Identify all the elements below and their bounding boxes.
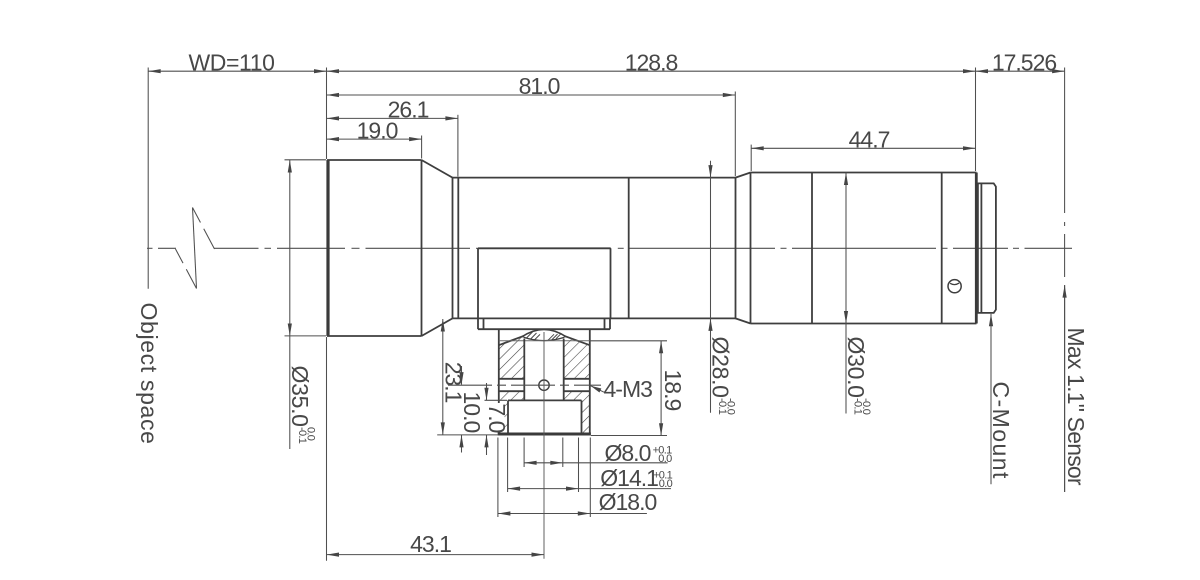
svg-text:Ø35.0: Ø35.0 bbox=[287, 366, 313, 427]
dim D18 line bbox=[498, 513, 647, 515]
foot right edge bbox=[589, 330, 591, 434]
spherical washer upper arc bbox=[522, 329, 567, 337]
rear taper top edge bbox=[736, 173, 751, 178]
dim 18.9 extensions bbox=[590, 340, 667, 342]
rear barrel bottom edge bbox=[751, 323, 977, 325]
svg-text:Max 1.1" Sensor: Max 1.1" Sensor bbox=[1063, 328, 1089, 486]
C-mount thread cylinder bbox=[978, 183, 996, 313]
svg-text:44.7: 44.7 bbox=[849, 126, 890, 152]
front face extension line upper bbox=[326, 68, 328, 160]
clamp block right edge bbox=[610, 248, 612, 318]
svg-text:Ø14.1: Ø14.1 bbox=[600, 465, 658, 491]
dim D14.1 line bbox=[508, 488, 671, 490]
mid barrel right step line bbox=[735, 178, 737, 319]
foot vertical axis bbox=[543, 332, 545, 559]
foot shoulder line bbox=[499, 340, 590, 342]
M3 hole axis (dash-dot) bbox=[448, 384, 601, 386]
foot hatch right lower bbox=[564, 391, 590, 433]
dim 17.526 arrows bbox=[976, 69, 989, 73]
rear barrel groove line 2 bbox=[941, 173, 943, 324]
foot bottom face (thick) bbox=[498, 433, 591, 436]
svg-text:10.0: 10.0 bbox=[459, 392, 485, 433]
C-mount cylinder inner line bbox=[980, 183, 982, 313]
counterbore shoulder extension bbox=[485, 399, 508, 401]
dim 81.0 extension bbox=[734, 92, 736, 177]
rear barrel left edge bbox=[750, 173, 752, 324]
counterbore shoulder bbox=[508, 399, 582, 401]
svg-text:C-Mount: C-Mount bbox=[988, 382, 1014, 480]
counterbore right wall bbox=[581, 400, 583, 432]
4-M3 leader bbox=[591, 386, 605, 393]
dim 17.526 line bbox=[976, 70, 1065, 72]
front face extension line lower bbox=[326, 337, 328, 561]
saddle boundary right bbox=[564, 336, 590, 345]
svg-text:-0.1: -0.1 bbox=[852, 398, 864, 415]
white mask for 7.0 bbox=[487, 403, 505, 432]
svg-text:-0.1: -0.1 bbox=[716, 398, 728, 415]
svg-text:128.8: 128.8 bbox=[625, 49, 678, 75]
object plane break (zigzag) symbol bbox=[176, 208, 215, 289]
counterbore left wall bbox=[507, 400, 509, 432]
rear taper bottom edge bbox=[736, 318, 751, 323]
M3 hole silhouette lines bbox=[499, 379, 590, 391]
groove ring lines after taper bbox=[452, 178, 454, 319]
svg-text:-0.1: -0.1 bbox=[296, 427, 308, 444]
dim D14.1 arrows bbox=[508, 487, 520, 491]
dim D8 extensions bbox=[523, 438, 525, 468]
svg-text:Ø18.0: Ø18.0 bbox=[599, 489, 657, 515]
dim 7.0 lines (outside arrows) bbox=[486, 383, 488, 400]
dim 26.1 extension bbox=[457, 115, 459, 177]
svg-text:17.526: 17.526 bbox=[992, 49, 1057, 75]
dim D18 arrows bbox=[498, 511, 511, 515]
C-Mount leader bbox=[990, 314, 992, 485]
clamp block left edge bbox=[477, 248, 479, 318]
dim 44.7 line bbox=[751, 147, 975, 149]
svg-text:18.9: 18.9 bbox=[660, 370, 686, 411]
foot bottom extension left bbox=[437, 434, 498, 436]
rear end extension line bbox=[975, 68, 977, 172]
dim 44.7 extension bbox=[750, 145, 752, 171]
dim 128.8 line bbox=[327, 70, 976, 72]
dim D28 line bbox=[710, 161, 712, 413]
object plane extension line bbox=[147, 68, 149, 289]
saddle boundary left bbox=[499, 336, 524, 345]
label D35 bbox=[287, 366, 316, 444]
foot hatch left upper bbox=[499, 336, 525, 379]
dim 18.9 arrows bbox=[659, 341, 663, 354]
rear barrel end face (thick) bbox=[975, 173, 978, 324]
svg-text:43.1: 43.1 bbox=[410, 531, 451, 557]
dim 23.1 line bbox=[442, 319, 444, 435]
spherical washer lower arc bbox=[524, 337, 565, 340]
mid barrel top edge bbox=[453, 177, 736, 179]
dim D14.1 extensions bbox=[507, 438, 509, 493]
dim D30 line bbox=[845, 173, 847, 414]
dim 19.0 line bbox=[327, 138, 422, 140]
dim WD=110 line bbox=[148, 70, 326, 72]
clamp flange right edge bbox=[609, 319, 611, 330]
front barrel face (thick) bbox=[326, 160, 329, 336]
dim 26.1 line bbox=[327, 117, 458, 119]
clamp flange notch right bbox=[604, 319, 606, 329]
svg-text:7.0: 7.0 bbox=[484, 404, 510, 433]
svg-text:Object space: Object space bbox=[136, 303, 162, 445]
svg-text:0.0: 0.0 bbox=[659, 478, 673, 490]
sensor plane line bbox=[1064, 68, 1066, 493]
main optical centerline (dash-dot) bbox=[147, 247, 1072, 249]
dim 18.9 line bbox=[660, 341, 662, 436]
center hole right wall bbox=[563, 339, 565, 401]
dim WD=110 arrows bbox=[148, 69, 161, 73]
svg-text:4-M3: 4-M3 bbox=[604, 376, 653, 402]
dim D8 arrows bbox=[524, 461, 537, 465]
dim 10.0 lines (outside arrows) bbox=[461, 366, 463, 385]
Max sensor leader bbox=[1064, 285, 1066, 492]
dim D35 line bbox=[289, 160, 291, 449]
dim D35 edge extensions bbox=[285, 159, 327, 161]
foot left edge bbox=[498, 330, 500, 434]
mid barrel groove line bbox=[628, 178, 630, 319]
dim 81.0 arrows bbox=[327, 93, 340, 97]
dim D35 arrows bbox=[288, 160, 292, 173]
dim 23.1 arrows bbox=[441, 319, 445, 332]
clamp flange bottom edge bbox=[478, 328, 610, 330]
front barrel bottom edge (thick) bbox=[327, 335, 422, 337]
set screw hole on rear barrel bbox=[948, 280, 961, 293]
dim D8 line bbox=[524, 462, 668, 464]
dim D28 arrows (outside) bbox=[708, 165, 712, 178]
dim D30 arrows bbox=[844, 173, 848, 186]
dim 128.8 arrows bbox=[327, 69, 340, 73]
taper bottom edge bbox=[422, 318, 453, 336]
label D30 bbox=[843, 337, 872, 415]
mid barrel bottom edge bbox=[453, 317, 736, 319]
svg-text:WD=110: WD=110 bbox=[188, 49, 274, 75]
taper top edge bbox=[422, 160, 453, 178]
dim 19.0 extension bbox=[421, 136, 423, 159]
dim 43.1 line bbox=[327, 554, 545, 556]
clamp flange notch left bbox=[483, 319, 485, 329]
clamp block top edge bbox=[478, 247, 611, 249]
front barrel right edge bbox=[421, 160, 423, 336]
dim D18 extensions bbox=[497, 438, 499, 518]
M3 tapped hole circle bbox=[539, 380, 549, 390]
label D28 bbox=[707, 337, 736, 415]
spherical washer hatch ticks bbox=[527, 332, 562, 340]
svg-text:19.0: 19.0 bbox=[357, 117, 398, 143]
svg-text:Ø8.0: Ø8.0 bbox=[605, 440, 651, 466]
svg-text:0.0: 0.0 bbox=[658, 453, 672, 465]
rear barrel top edge bbox=[751, 172, 977, 174]
svg-text:Ø30.0: Ø30.0 bbox=[843, 337, 869, 398]
center hole left wall bbox=[523, 339, 525, 401]
dim 19.0 arrows bbox=[327, 137, 340, 141]
svg-text:81.0: 81.0 bbox=[519, 73, 560, 99]
clamp flange left edge bbox=[477, 319, 479, 330]
dim 81.0 line bbox=[327, 94, 736, 96]
front barrel top edge bbox=[327, 159, 422, 161]
svg-text:Ø28.0: Ø28.0 bbox=[707, 337, 733, 398]
dim 26.1 arrows bbox=[327, 116, 340, 120]
rear barrel groove line 1 bbox=[811, 173, 813, 324]
dim 44.7 arrows bbox=[751, 146, 764, 150]
foot hatch left lower bbox=[499, 391, 525, 433]
foot hatch right upper bbox=[564, 336, 590, 379]
dim 43.1 arrows bbox=[327, 553, 340, 557]
